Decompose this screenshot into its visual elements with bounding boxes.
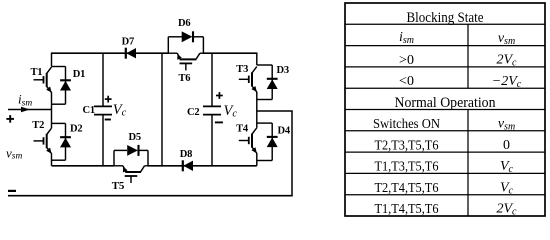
diode D1: [60, 67, 71, 105]
svg-text:Switches ON: Switches ON: [373, 117, 440, 132]
diode D2: [60, 123, 71, 160]
svg-text:D3: D3: [277, 65, 289, 76]
transistor T5: [114, 166, 149, 183]
wire left branch bottom segment: [51, 153, 53, 165]
wire T2 loop bottom stub: [52, 159, 66, 161]
svg-text:<0: <0: [399, 74, 414, 89]
svg-text:C1: C1: [83, 105, 95, 116]
diode D8: [183, 160, 193, 171]
svg-text:−2Vc: −2Vc: [492, 74, 522, 90]
minus sign output terminal: [8, 190, 16, 192]
wire T3 loop top stub: [257, 64, 272, 66]
wire top rail right segment: [203, 52, 256, 54]
svg-text:D1: D1: [73, 69, 85, 80]
svg-text:Vc: Vc: [224, 103, 238, 120]
svg-text:Vc: Vc: [500, 180, 514, 196]
wire left branch middle segment: [51, 92, 53, 128]
wire C1 branch top: [102, 53, 104, 106]
wire T1 loop bottom stub: [52, 103, 66, 105]
transistor T4: [239, 128, 257, 153]
svg-text:vsm: vsm: [6, 145, 22, 161]
svg-text:Vc: Vc: [113, 102, 127, 119]
svg-text:D7: D7: [122, 37, 134, 48]
svg-text:T6: T6: [179, 73, 191, 84]
wire outer right vertical: [291, 111, 293, 196]
svg-text:C2: C2: [187, 107, 199, 118]
table outer border: [345, 3, 545, 216]
diode D5: [127, 145, 138, 156]
wire input i_sm lead: [8, 109, 52, 111]
wire D6 loop top right: [193, 36, 203, 38]
svg-text:T1,T4,T5,T6: T1,T4,T5,T6: [375, 202, 439, 217]
svg-text:vsm: vsm: [498, 116, 515, 132]
diode D7: [126, 48, 136, 59]
svg-text:>0: >0: [399, 53, 414, 68]
wire T1 loop top stub: [52, 66, 66, 68]
svg-text:ism: ism: [18, 92, 32, 109]
svg-text:T4: T4: [236, 124, 249, 135]
transistor T2: [34, 128, 52, 153]
wire D6 loop right vertical: [202, 37, 204, 53]
minus sign C2: [215, 121, 223, 123]
svg-text:T2,T4,T5,T6: T2,T4,T5,T6: [375, 181, 439, 196]
wire right branch collector segment: [256, 53, 258, 66]
wire C1 branch bottom: [102, 115, 104, 166]
svg-text:D2: D2: [70, 124, 82, 135]
transistor T3: [239, 67, 257, 92]
svg-text:2Vc: 2Vc: [496, 202, 517, 218]
wire middle vertical branch: [161, 53, 163, 166]
wire left branch collector segment: [51, 53, 53, 67]
diode D3: [267, 65, 278, 100]
svg-text:T2: T2: [32, 120, 44, 131]
wire C2 branch top: [211, 53, 213, 106]
plus sign C2: [216, 92, 223, 99]
wire bottom rail left segment: [52, 165, 115, 167]
svg-text:D4: D4: [278, 125, 291, 136]
svg-text:Vc: Vc: [500, 159, 514, 175]
wire T2 loop top stub: [52, 122, 66, 124]
svg-text:T5: T5: [112, 180, 125, 192]
table column divider: [467, 24, 469, 88]
wire top rail left segment: [52, 52, 169, 54]
wire external bottom return: [8, 195, 293, 197]
capacitor C2: [203, 106, 221, 114]
svg-text:Normal Operation: Normal Operation: [395, 95, 497, 111]
wire D5 loop top left: [114, 149, 127, 151]
svg-text:ism: ism: [399, 30, 414, 46]
svg-text:D5: D5: [129, 132, 141, 143]
svg-text:D6: D6: [178, 18, 190, 29]
transistor T1: [34, 67, 52, 92]
arrow i_sm: [21, 107, 30, 113]
svg-text:D8: D8: [180, 149, 192, 160]
svg-text:T1,T3,T5,T6: T1,T3,T5,T6: [375, 160, 439, 175]
minus sign C1: [105, 119, 111, 121]
plus sign input terminal: [6, 115, 14, 123]
diode D6: [182, 31, 193, 42]
wire T3 loop bottom stub: [257, 99, 272, 101]
wire D6 loop left vertical: [167, 37, 169, 53]
svg-text:T3: T3: [236, 64, 248, 75]
svg-text:vsm: vsm: [498, 31, 515, 47]
wire D5 loop top right: [139, 149, 149, 151]
wire bottom rail right segment: [148, 165, 257, 167]
wire D6 loop top left: [168, 36, 182, 38]
transistor T6: [168, 53, 204, 70]
table horizontal rules: [345, 23, 545, 25]
capacitor C1: [94, 106, 112, 114]
wire T4 loop top stub: [257, 122, 272, 124]
plus sign C1: [105, 96, 112, 103]
svg-text:2Vc: 2Vc: [496, 53, 517, 69]
svg-text:T1: T1: [31, 67, 43, 78]
svg-text:Blocking State: Blocking State: [407, 10, 484, 26]
wire output midpoint right: [257, 110, 293, 112]
diode D4: [267, 123, 278, 160]
wire D5 loop right vertical: [147, 150, 149, 165]
wire T4 loop bottom stub: [257, 160, 272, 162]
wire C2 branch bottom: [211, 115, 213, 166]
svg-text:T2,T3,T5,T6: T2,T3,T5,T6: [375, 138, 439, 153]
svg-text:0: 0: [503, 138, 510, 153]
wire right branch bottom segment: [256, 153, 258, 166]
wire D5 loop left vertical: [113, 150, 115, 165]
wire right branch middle segment: [256, 92, 258, 128]
